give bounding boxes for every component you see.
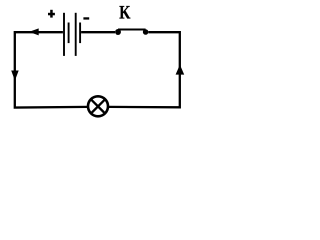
svg-text:K: K	[119, 3, 131, 23]
